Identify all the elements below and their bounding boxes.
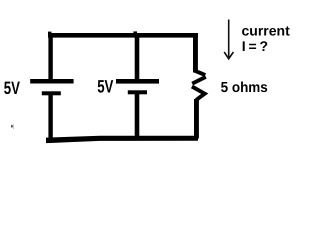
wire left upper — [48, 33, 52, 80]
node top-left corner bump — [48, 32, 52, 34]
node middle-top junction bump — [133, 31, 137, 33]
svg-text:I = ?: I = ? — [242, 38, 268, 54]
wire top — [48, 33, 198, 38]
resistor R1 zigzag (5 ohms) — [192, 71, 206, 100]
svg-text:5 ohms: 5 ohms — [221, 80, 268, 96]
svg-text:5V: 5V — [4, 78, 20, 98]
current direction arrow — [224, 20, 233, 59]
wire right upper — [193, 33, 198, 73]
wire middle upper — [135, 34, 140, 80]
wire bottom — [46, 136, 198, 143]
battery B1 short plate (-) — [42, 91, 61, 95]
svg-text:5V: 5V — [97, 76, 113, 96]
battery B2 long plate (+) — [116, 79, 159, 84]
svg-text:current: current — [242, 23, 291, 39]
battery B2 short plate (-) — [128, 90, 147, 94]
battery B1 long plate (+) — [30, 79, 73, 84]
wire right lower — [194, 99, 199, 139]
stray mark — [11, 125, 14, 129]
wire left lower — [48, 95, 52, 142]
wire middle lower — [135, 94, 140, 138]
